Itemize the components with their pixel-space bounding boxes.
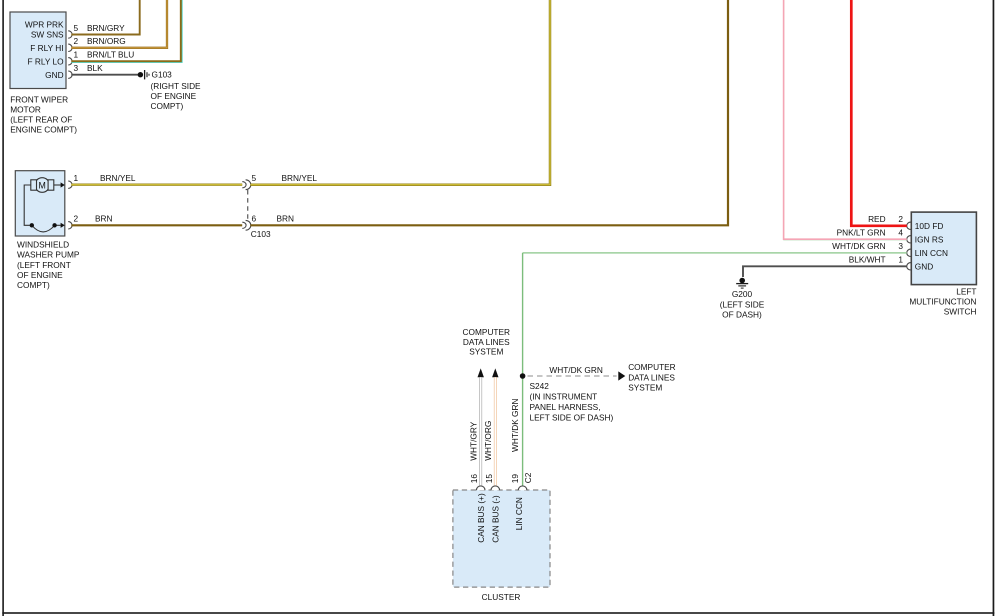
svg-text:M: M (39, 180, 46, 190)
svg-text:SW SNS: SW SNS (31, 29, 64, 39)
svg-text:OF ENGINE: OF ENGINE (151, 91, 197, 101)
svg-text:4: 4 (898, 228, 903, 238)
svg-text:1: 1 (74, 173, 79, 183)
svg-text:(RIGHT SIDE: (RIGHT SIDE (151, 81, 202, 91)
windshield washer pump box (15, 171, 65, 236)
svg-text:LEFT: LEFT (956, 286, 976, 296)
cluster CAN BUS - label rotated (491, 495, 501, 543)
cluster CAN BUS + label rotated (476, 493, 486, 543)
svg-text:CAN BUS (+): CAN BUS (+) (476, 493, 486, 543)
cluster pin 15 bump (491, 486, 500, 490)
connector C103 label (251, 229, 271, 239)
wire RED pin 2 (851, 0, 907, 226)
svg-text:6: 6 (252, 214, 257, 224)
svg-text:BRN/YEL: BRN/YEL (282, 173, 318, 183)
svg-text:FRONT WIPER: FRONT WIPER (10, 95, 68, 105)
front wiper motor caption (10, 95, 77, 135)
connector C103 dashed body (247, 190, 249, 220)
svg-text:WHT/DK GRN: WHT/DK GRN (510, 399, 520, 452)
wire WHT/DK GRN pin 3 (523, 252, 907, 254)
svg-text:5: 5 (74, 23, 79, 33)
wire PNK/LT GRN pin 4 (784, 0, 907, 240)
ground G103 label (151, 70, 202, 112)
svg-text:BLK: BLK (87, 63, 103, 73)
arrow to computer data lines system right (618, 371, 625, 380)
label WHT/ORG rotated (483, 421, 493, 461)
front wiper motor pin 3 connector arc (68, 71, 72, 78)
svg-text:OF ENGINE: OF ENGINE (17, 270, 63, 280)
label pin 1 BLK/WHT (849, 255, 904, 265)
washer pump pin 1 connector arc (68, 181, 72, 188)
switch pin labels (915, 221, 948, 272)
wire WHT/GRY (479, 377, 482, 486)
computer data lines system left label (463, 327, 511, 357)
svg-text:1: 1 (898, 255, 903, 265)
washer pump junction dots (30, 223, 57, 227)
svg-text:CLUSTER: CLUSTER (482, 592, 521, 602)
left multifunction switch caption (909, 286, 976, 316)
label pin 1 BRN/YEL (74, 173, 136, 183)
svg-text:(LEFT SIDE: (LEFT SIDE (720, 299, 765, 309)
svg-text:15: 15 (484, 474, 494, 484)
svg-text:PNK/LT GRN: PNK/LT GRN (837, 228, 886, 238)
label pin 3 BLK (74, 63, 104, 73)
svg-text:WPR PRK: WPR PRK (25, 20, 64, 30)
svg-text:G103: G103 (152, 70, 173, 80)
front wiper motor pin 5 connector arc (68, 31, 72, 38)
label pin 2 RED (868, 214, 903, 224)
svg-text:COMPUTER: COMPUTER (463, 327, 510, 337)
svg-text:BRN/ORG: BRN/ORG (87, 36, 126, 46)
splice S242 (520, 373, 526, 379)
wire WHT/ORG (494, 377, 497, 486)
svg-text:ENGINE COMPT): ENGINE COMPT) (10, 125, 77, 135)
svg-text:2: 2 (74, 36, 79, 46)
switch pin 2 connector arc (907, 222, 911, 229)
wire BRN pump to C103 (71, 224, 242, 226)
svg-text:SYSTEM: SYSTEM (469, 347, 503, 357)
cluster pin 16 bump (476, 486, 485, 490)
connector C103 row 6 arcs (242, 220, 251, 230)
front wiper motor pin 1 connector arc (68, 58, 72, 65)
arrow up CAN bus - (492, 368, 498, 377)
label pin 4 PNK/LT GRN (837, 228, 904, 238)
cluster pin 19 label (510, 474, 520, 484)
svg-text:3: 3 (898, 241, 903, 251)
washer pump internal wire (24, 185, 65, 232)
label pin 1 BRN/LT BLU (74, 50, 135, 60)
wire BRN C103 riser (250, 0, 728, 225)
label WHT/GRY rotated (468, 421, 478, 460)
front wiper motor U1 box (10, 12, 66, 89)
svg-text:16: 16 (469, 474, 479, 484)
svg-text:CAN BUS (-): CAN BUS (-) (491, 495, 501, 543)
wire BLK pin 3 (71, 74, 138, 76)
svg-text:LIN CCN: LIN CCN (915, 248, 948, 258)
connector C103 row 5 arcs (242, 180, 251, 190)
svg-text:DATA LINES: DATA LINES (463, 337, 510, 347)
svg-text:COMPT): COMPT) (151, 101, 184, 111)
wire BRN/YEL pump to C103 (71, 183, 242, 185)
svg-text:BRN: BRN (95, 214, 113, 224)
svg-text:MOTOR: MOTOR (10, 105, 41, 115)
svg-text:C2: C2 (523, 472, 533, 483)
svg-text:OF DASH): OF DASH) (722, 310, 762, 320)
svg-text:WINDSHIELD: WINDSHIELD (17, 239, 69, 249)
switch pin 4 connector arc (907, 236, 911, 243)
label WHT/DK GRN splice (549, 365, 602, 375)
svg-text:GND: GND (915, 262, 933, 272)
svg-text:SYSTEM: SYSTEM (628, 382, 662, 392)
washer pump caption (17, 239, 80, 290)
splice S242 label (530, 381, 614, 422)
svg-text:5: 5 (252, 173, 257, 183)
svg-text:WHT/ORG: WHT/ORG (483, 421, 493, 461)
svg-text:19: 19 (510, 474, 520, 484)
svg-text:2: 2 (74, 214, 79, 224)
switch pin 3 connector arc (907, 249, 911, 256)
switch pin 1 connector arc (907, 263, 911, 270)
cluster box (453, 490, 550, 587)
svg-text:WHT/GRY: WHT/GRY (468, 421, 478, 460)
svg-text:PANEL HARNESS,: PANEL HARNESS, (530, 402, 601, 412)
svg-text:LIN CCN: LIN CCN (514, 497, 524, 530)
wire BRN/YEL C103 to splice riser (250, 0, 550, 185)
svg-text:BRN: BRN (277, 214, 295, 224)
svg-text:G200: G200 (732, 289, 753, 299)
svg-text:(LEFT FRONT: (LEFT FRONT (17, 260, 71, 270)
svg-text:BRN/YEL: BRN/YEL (100, 173, 136, 183)
svg-text:GND: GND (45, 70, 63, 80)
svg-text:WHT/DK GRN: WHT/DK GRN (832, 241, 885, 251)
wire BRN/GRY pin 5 (71, 0, 139, 35)
wire WHT/DK GRN dashed to system (528, 375, 617, 377)
svg-text:LEFT SIDE OF DASH): LEFT SIDE OF DASH) (530, 412, 614, 422)
ground G200 label (720, 289, 765, 319)
ground G200 (736, 278, 748, 288)
svg-text:1: 1 (74, 50, 79, 60)
svg-text:COMPT): COMPT) (17, 280, 50, 290)
svg-text:BLK/WHT: BLK/WHT (849, 255, 886, 265)
svg-text:RED: RED (868, 214, 886, 224)
wire BRN/ORG pin 2 (71, 0, 167, 48)
svg-text:IGN RS: IGN RS (915, 235, 944, 245)
label pin 2 BRN (74, 214, 113, 224)
arrow up CAN bus + (478, 368, 484, 377)
label pin 3 WHT/DK GRN (832, 241, 903, 251)
svg-text:SWITCH: SWITCH (944, 306, 977, 316)
svg-text:2: 2 (898, 214, 903, 224)
cluster pin 16 label (469, 474, 479, 484)
label pin 5 BRN/YEL (252, 173, 318, 183)
washer pump pin 2 connector arc (68, 222, 72, 229)
svg-text:WHT/DK GRN: WHT/DK GRN (549, 365, 602, 375)
svg-text:S242: S242 (530, 381, 550, 391)
svg-text:MULTIFUNCTION: MULTIFUNCTION (909, 296, 976, 306)
svg-text:BRN/GRY: BRN/GRY (87, 23, 125, 33)
svg-text:F RLY HI: F RLY HI (30, 43, 63, 53)
svg-text:BRN/LT BLU: BRN/LT BLU (87, 50, 134, 60)
label pin 6 BRN (252, 214, 295, 224)
svg-text:F RLY LO: F RLY LO (27, 56, 64, 66)
svg-text:3: 3 (74, 63, 79, 73)
front wiper motor pin 2 connector arc (68, 44, 72, 51)
cluster LIN CCN label rotated (514, 497, 524, 530)
svg-text:COMPUTER: COMPUTER (628, 362, 675, 372)
cluster connector C2 label (523, 472, 533, 483)
wire WHT/DK GRN riser to cluster (522, 253, 524, 486)
svg-text:(IN INSTRUMENT: (IN INSTRUMENT (530, 392, 598, 402)
cluster pin 19 bump (518, 486, 527, 490)
computer data lines system right label (628, 362, 675, 392)
svg-text:DATA LINES: DATA LINES (628, 372, 675, 382)
left multifunction switch box (911, 212, 976, 285)
svg-text:10D FD: 10D FD (915, 221, 944, 231)
label pin 5 BRN/GRY (74, 23, 126, 33)
cluster caption (482, 592, 521, 602)
svg-text:WASHER PUMP: WASHER PUMP (17, 250, 80, 260)
washer pump motor symbol M1 (31, 178, 65, 193)
ground G103 (138, 70, 149, 79)
wire BRN/LT BLU pin 1 (71, 0, 182, 62)
label pin 2 BRN/ORG (74, 36, 126, 46)
label WHT/DK GRN rotated (510, 399, 520, 452)
svg-text:C103: C103 (251, 229, 271, 239)
svg-text:(LEFT REAR OF: (LEFT REAR OF (10, 115, 72, 125)
wire BLK/WHT pin 1 (743, 266, 907, 277)
front wiper motor pin labels (25, 20, 64, 80)
cluster pin 15 label (484, 474, 494, 484)
